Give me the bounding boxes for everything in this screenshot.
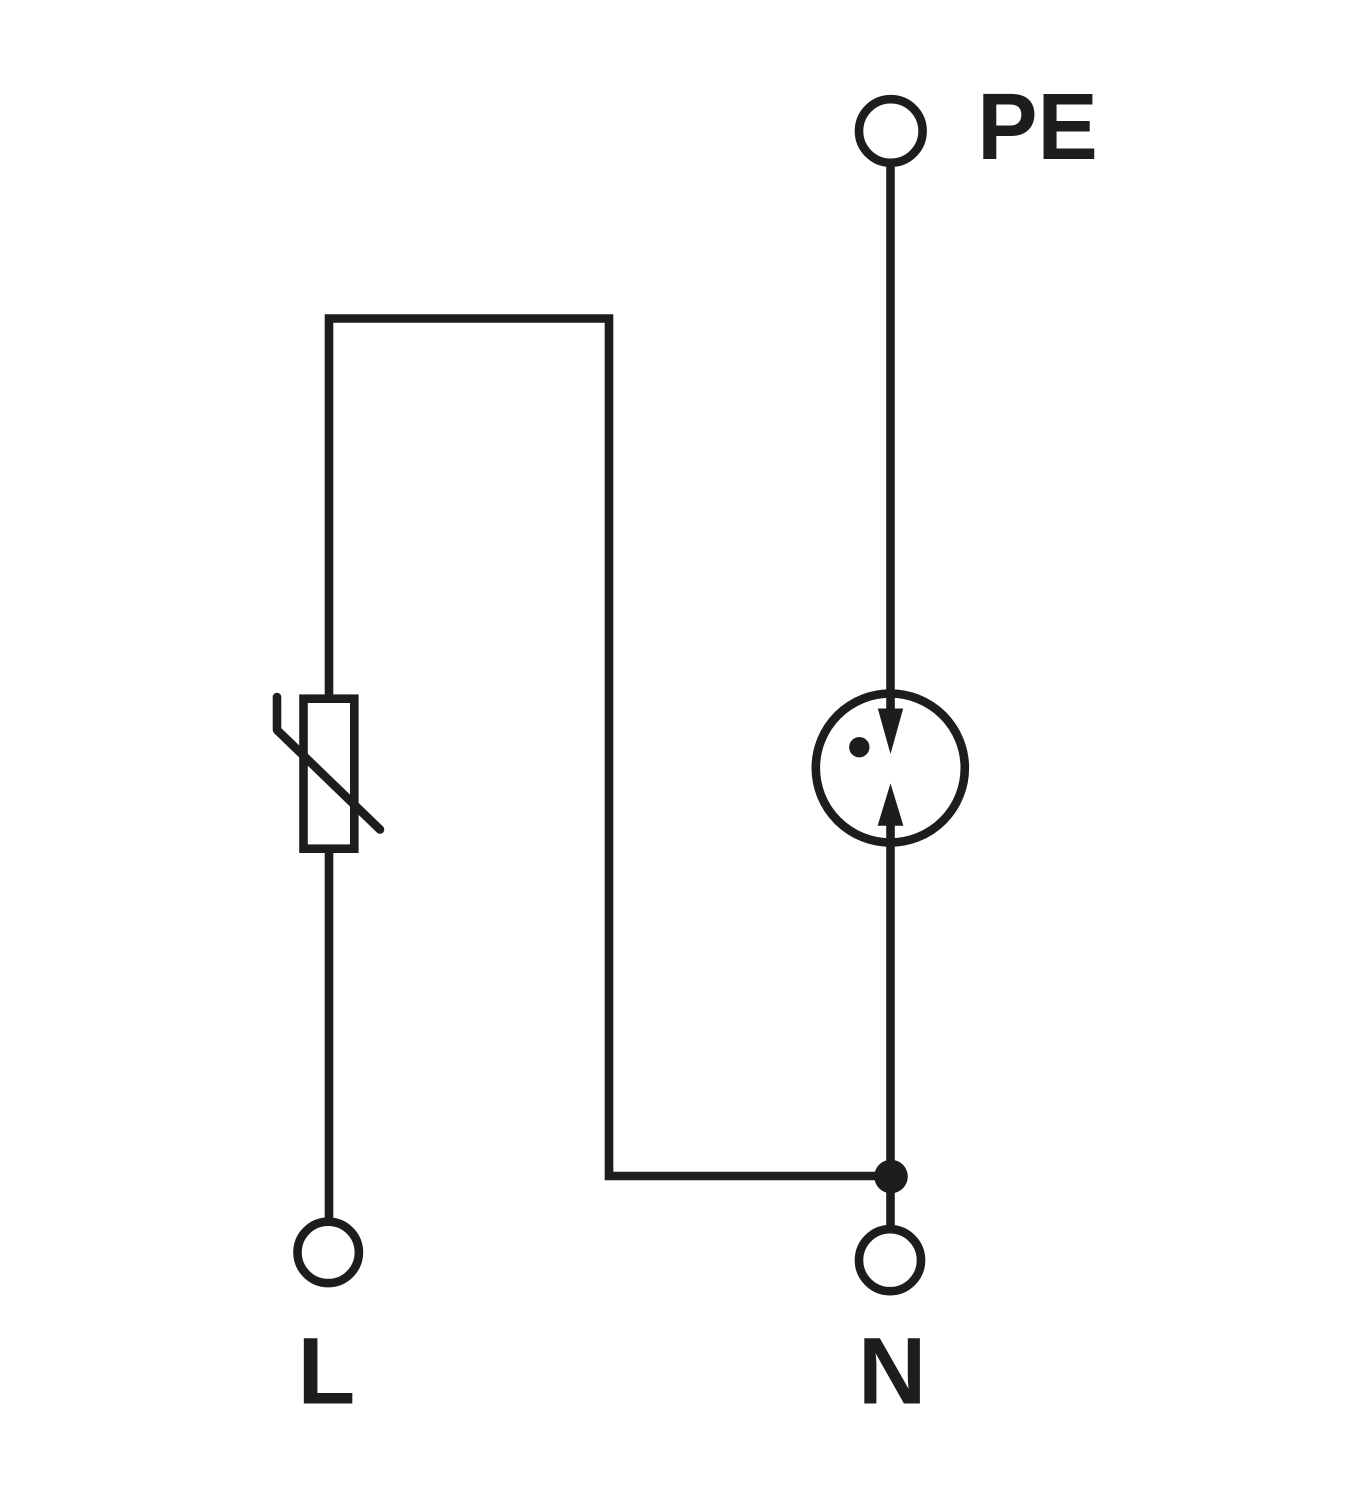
svg-text:L: L xyxy=(298,1319,356,1425)
svg-text:PE: PE xyxy=(977,74,1098,180)
svg-text:N: N xyxy=(858,1319,926,1425)
